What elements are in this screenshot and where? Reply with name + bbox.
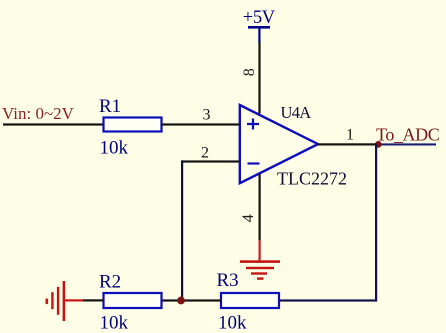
ground symbol earth below op-amp	[240, 260, 280, 280]
svg-text:R2: R2	[99, 272, 121, 293]
wire feedback vertical from pin 2 down to node A	[181, 160, 183, 301]
wire Vin to R1	[3, 123, 104, 125]
resistor R3	[221, 293, 279, 308]
wire pin 8 vertical	[258, 42, 260, 114]
svg-text:1: 1	[346, 126, 354, 143]
ground symbol left (earth, rotated)	[46, 281, 66, 321]
svg-text:To_ADC: To_ADC	[376, 124, 440, 144]
svg-text:10k: 10k	[100, 138, 129, 159]
svg-text:TLC2272: TLC2272	[277, 169, 347, 189]
svg-text:8: 8	[241, 68, 258, 76]
wire op-amp pin 2 horizontal	[181, 160, 240, 162]
wire net stub To_ADC	[378, 143, 436, 145]
svg-text:R1: R1	[99, 96, 121, 117]
svg-text:4: 4	[240, 214, 257, 222]
svg-text:10k: 10k	[218, 313, 247, 333]
svg-text:R3: R3	[217, 270, 239, 291]
wire R1 to op-amp pin 3	[162, 123, 240, 125]
svg-text:2: 2	[201, 144, 209, 161]
power symbol +5V bar	[248, 26, 270, 42]
resistor R1	[104, 118, 162, 132]
svg-text:10k: 10k	[100, 313, 129, 333]
svg-text:U4A: U4A	[281, 103, 312, 122]
wire R2 to node A	[162, 299, 182, 301]
wire feedback right vertical	[375, 143, 377, 301]
svg-text:Vin: 0~2V: Vin: 0~2V	[2, 104, 75, 123]
svg-text:+5V: +5V	[243, 8, 276, 28]
junction node To_ADC	[375, 141, 382, 148]
junction node A	[177, 297, 185, 305]
wire op-amp output pin 1	[317, 143, 378, 145]
resistor R2	[104, 293, 162, 308]
op-amp U4A	[240, 105, 318, 183]
wire node A to R3	[181, 299, 222, 301]
wire ground to R2	[65, 299, 104, 301]
svg-text:3: 3	[203, 106, 211, 123]
wire R3 to feedback vertical	[279, 299, 377, 301]
wire op-amp pin 4 vertical	[259, 174, 261, 261]
